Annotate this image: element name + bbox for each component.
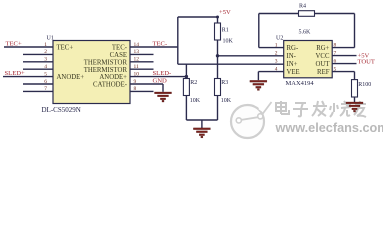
svg-text:SLED-: SLED- xyxy=(153,70,172,77)
svg-text:IN-: IN- xyxy=(287,53,297,60)
wire pin1 TEC+ xyxy=(4,46,53,48)
bottom bus R2-R3 xyxy=(186,119,217,121)
svg-text:RG-: RG- xyxy=(287,45,299,52)
wire pin11 xyxy=(130,68,154,70)
wire pin5 REF xyxy=(332,71,354,73)
svg-text:+5V: +5V xyxy=(219,9,231,16)
node IN- junction on R1/R3 column xyxy=(216,54,219,57)
svg-text:10K: 10K xyxy=(221,98,232,104)
wire pin13 xyxy=(130,53,154,55)
U1 pin names xyxy=(57,45,128,89)
wire IN+ rail to U2 pin3 xyxy=(178,63,284,65)
wire pin12 xyxy=(130,61,154,63)
svg-text:3: 3 xyxy=(275,58,278,64)
svg-text:2: 2 xyxy=(275,50,278,56)
resistor R100 xyxy=(352,80,358,97)
U2 pin names xyxy=(287,45,331,76)
wire pin8 xyxy=(130,90,154,92)
svg-text:3: 3 xyxy=(44,57,47,63)
svg-text:IN+: IN+ xyxy=(287,61,298,68)
wire R4 left to pin1 xyxy=(259,13,299,15)
U2 pin numbers xyxy=(275,42,337,72)
svg-text:THERMISTOR: THERMISTOR xyxy=(84,67,128,74)
svg-text:11: 11 xyxy=(134,64,140,70)
svg-text:CASE: CASE xyxy=(110,52,127,59)
IC U1 DL-CS5029N xyxy=(53,41,130,104)
wire pin14 TEC- xyxy=(130,46,178,48)
svg-text:MAX4194: MAX4194 xyxy=(286,80,315,87)
wire R4 right to pin8 xyxy=(315,13,355,15)
svg-text:www.elecfans.com: www.elecfans.com xyxy=(275,121,383,135)
svg-text:13: 13 xyxy=(134,49,140,55)
svg-text:TEC-: TEC- xyxy=(112,45,128,52)
svg-text:TOUT: TOUT xyxy=(358,58,375,65)
svg-text:10K: 10K xyxy=(190,98,201,104)
svg-text:R4: R4 xyxy=(299,4,306,10)
ground for pin9 xyxy=(155,92,172,94)
wire pin4 xyxy=(23,68,53,70)
resistor R1 xyxy=(217,17,219,23)
wire pin3 xyxy=(23,61,53,63)
svg-text:R2: R2 xyxy=(190,80,197,86)
svg-text:ANODE+: ANODE+ xyxy=(57,74,85,81)
U1 pin numbers right xyxy=(134,42,140,92)
svg-text:R100: R100 xyxy=(358,82,371,88)
svg-text:ANODE+: ANODE+ xyxy=(99,74,127,81)
wire pin6 xyxy=(23,83,53,85)
watermark CJK text (approximated glyph strokes) xyxy=(276,101,366,117)
IC U2 MAX4194 xyxy=(284,41,333,78)
svg-text:VCC: VCC xyxy=(316,53,330,60)
wire pin9 GND xyxy=(130,83,163,85)
vertical from rail to IN+ rail xyxy=(177,17,179,64)
svg-text:TEC-: TEC- xyxy=(153,40,168,47)
svg-text:U1: U1 xyxy=(47,36,54,42)
svg-text:U2: U2 xyxy=(276,36,283,42)
ground bridge xyxy=(193,128,210,130)
wire pin7 VCC xyxy=(332,55,356,57)
ground VEE xyxy=(250,80,267,82)
svg-text:R1: R1 xyxy=(222,28,229,34)
svg-text:1: 1 xyxy=(44,42,47,48)
wire VEE to ground xyxy=(258,71,283,73)
svg-text:RG+: RG+ xyxy=(316,45,329,52)
svg-text:10: 10 xyxy=(134,71,140,77)
svg-text:R3: R3 xyxy=(221,80,228,86)
svg-text:4: 4 xyxy=(44,64,47,70)
svg-text:REF: REF xyxy=(317,69,330,76)
svg-text:9: 9 xyxy=(134,79,137,85)
svg-text:VEE: VEE xyxy=(287,69,300,76)
wire pin2 xyxy=(23,53,53,55)
svg-text:TEC+: TEC+ xyxy=(57,45,74,52)
svg-text:6: 6 xyxy=(44,79,47,85)
wire pin7 xyxy=(23,90,53,92)
wire pin5 SLED+ xyxy=(3,76,53,78)
svg-text:14: 14 xyxy=(134,42,140,48)
svg-text:8: 8 xyxy=(134,86,137,92)
wire pin10 SLED- xyxy=(130,76,186,78)
svg-text:DL-CS5029N: DL-CS5029N xyxy=(42,106,81,114)
resistor R2 xyxy=(185,64,187,78)
wire IN- to U2 pin2 xyxy=(218,55,284,57)
svg-text:5: 5 xyxy=(44,71,47,77)
ground R100 xyxy=(346,102,363,104)
svg-text:SLED+: SLED+ xyxy=(5,70,25,77)
svg-text:GND: GND xyxy=(153,77,168,84)
svg-text:5.6K: 5.6K xyxy=(299,30,312,36)
svg-text:2: 2 xyxy=(44,49,47,55)
svg-text:OUT: OUT xyxy=(316,61,331,68)
+5V rail top xyxy=(178,16,218,18)
resistor R4 xyxy=(299,11,315,17)
svg-text:THERMISTOR: THERMISTOR xyxy=(84,59,128,66)
node SLED- junction xyxy=(185,75,188,78)
svg-text:10K: 10K xyxy=(223,39,234,45)
watermark logo xyxy=(231,102,272,138)
wire pin6 OUT xyxy=(332,63,356,65)
U1 pin numbers left xyxy=(44,42,47,92)
svg-text:CATHODE-: CATHODE- xyxy=(93,82,128,89)
svg-text:7: 7 xyxy=(44,86,47,92)
resistor R3 xyxy=(215,79,221,96)
svg-text:12: 12 xyxy=(134,57,140,63)
svg-text:TEC+: TEC+ xyxy=(6,40,22,47)
